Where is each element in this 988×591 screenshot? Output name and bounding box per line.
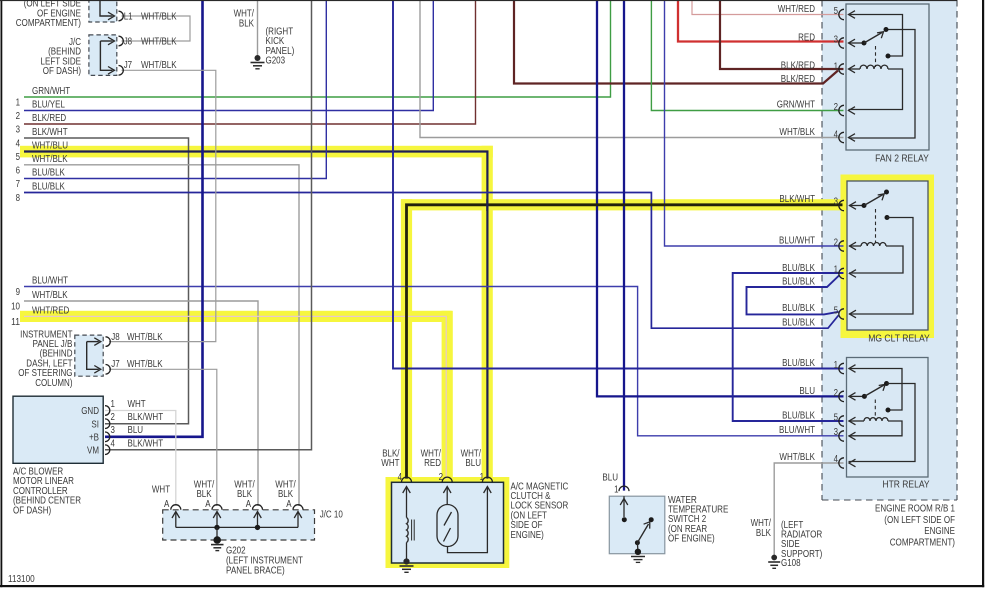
svg-text:BLU: BLU bbox=[602, 473, 618, 484]
svg-text:GND: GND bbox=[81, 406, 99, 417]
svg-text:1: 1 bbox=[614, 484, 619, 495]
svg-text:1: 1 bbox=[16, 98, 21, 109]
svg-text:A: A bbox=[246, 499, 252, 510]
svg-text:BLU/WHT: BLU/WHT bbox=[779, 425, 815, 436]
svg-text:113100: 113100 bbox=[8, 574, 35, 585]
svg-text:WHT: WHT bbox=[381, 458, 399, 469]
svg-text:BLU/BLK: BLU/BLK bbox=[782, 303, 815, 314]
svg-text:5: 5 bbox=[834, 306, 839, 317]
svg-text:BLK/RED: BLK/RED bbox=[32, 113, 66, 124]
svg-text:3: 3 bbox=[16, 125, 21, 136]
svg-text:L1: L1 bbox=[124, 12, 133, 23]
svg-text:6: 6 bbox=[16, 165, 21, 176]
svg-text:3: 3 bbox=[111, 425, 116, 436]
svg-text:OF DASH): OF DASH) bbox=[13, 505, 51, 516]
svg-text:COMPARTMENT): COMPARTMENT) bbox=[16, 18, 81, 29]
svg-text:WHT/BLK: WHT/BLK bbox=[32, 154, 68, 165]
svg-text:4: 4 bbox=[398, 472, 403, 483]
svg-text:WHT/BLK: WHT/BLK bbox=[127, 359, 163, 370]
svg-text:BLK/WHT: BLK/WHT bbox=[779, 194, 815, 205]
svg-text:2: 2 bbox=[834, 102, 839, 113]
svg-text:G203: G203 bbox=[266, 56, 286, 67]
svg-text:4: 4 bbox=[16, 139, 21, 150]
svg-text:RED: RED bbox=[798, 33, 815, 44]
svg-text:7: 7 bbox=[16, 179, 21, 190]
svg-text:5: 5 bbox=[834, 413, 839, 424]
svg-text:RED: RED bbox=[424, 458, 441, 469]
svg-text:WHT: WHT bbox=[152, 485, 170, 496]
svg-text:3: 3 bbox=[834, 35, 839, 46]
svg-text:SI: SI bbox=[91, 419, 99, 430]
svg-text:BLK/RED: BLK/RED bbox=[781, 74, 815, 85]
svg-text:BLU/BLK: BLU/BLK bbox=[782, 277, 815, 288]
svg-text:A: A bbox=[205, 499, 211, 510]
svg-text:J7: J7 bbox=[111, 359, 120, 370]
svg-text:ENGINE): ENGINE) bbox=[511, 530, 544, 541]
svg-text:GRN/WHT: GRN/WHT bbox=[777, 100, 815, 111]
svg-text:8: 8 bbox=[16, 193, 21, 204]
svg-text:BLK/WHT: BLK/WHT bbox=[128, 412, 164, 423]
svg-text:ENGINE ROOM R/B 1: ENGINE ROOM R/B 1 bbox=[875, 504, 955, 515]
svg-text:GRN/WHT: GRN/WHT bbox=[32, 86, 70, 97]
svg-text:VM: VM bbox=[87, 445, 99, 456]
svg-text:WHT/BLK: WHT/BLK bbox=[779, 452, 815, 463]
svg-text:BLU/YEL: BLU/YEL bbox=[32, 100, 65, 111]
svg-text:2: 2 bbox=[111, 412, 116, 423]
svg-text:A: A bbox=[164, 499, 170, 510]
svg-text:+B: +B bbox=[89, 433, 99, 444]
svg-text:BLU/BLK: BLU/BLK bbox=[782, 318, 815, 329]
svg-text:BLU: BLU bbox=[465, 458, 481, 469]
svg-text:HTR RELAY: HTR RELAY bbox=[882, 479, 929, 491]
svg-text:9: 9 bbox=[16, 287, 21, 298]
svg-text:BLU/BLK: BLU/BLK bbox=[32, 182, 65, 193]
svg-text:WHT: WHT bbox=[128, 399, 146, 410]
svg-text:4: 4 bbox=[111, 438, 116, 449]
svg-text:1: 1 bbox=[111, 399, 116, 410]
svg-text:WHT/BLK: WHT/BLK bbox=[141, 37, 177, 48]
svg-text:BLU/WHT: BLU/WHT bbox=[32, 276, 68, 287]
svg-text:BLU: BLU bbox=[128, 425, 144, 436]
svg-text:FAN 2 RELAY: FAN 2 RELAY bbox=[875, 153, 929, 165]
svg-text:5: 5 bbox=[834, 6, 839, 17]
svg-text:2: 2 bbox=[439, 472, 444, 483]
svg-text:J/C 10: J/C 10 bbox=[320, 509, 343, 520]
svg-text:WHT/BLK: WHT/BLK bbox=[141, 12, 177, 23]
svg-text:1: 1 bbox=[480, 472, 485, 483]
svg-text:BLU/BLK: BLU/BLK bbox=[32, 168, 65, 179]
svg-text:J8: J8 bbox=[124, 37, 133, 48]
svg-text:BLU/BLK: BLU/BLK bbox=[782, 411, 815, 422]
svg-text:ENGINE: ENGINE bbox=[924, 526, 955, 537]
svg-text:MG CLT RELAY: MG CLT RELAY bbox=[868, 333, 930, 345]
svg-text:WHT/BLK: WHT/BLK bbox=[141, 60, 177, 71]
svg-text:2: 2 bbox=[16, 111, 21, 122]
svg-text:WHT/BLK: WHT/BLK bbox=[127, 332, 163, 343]
svg-text:WHT/BLK: WHT/BLK bbox=[32, 290, 68, 301]
svg-text:WHT/RED: WHT/RED bbox=[778, 4, 815, 15]
svg-text:5: 5 bbox=[16, 152, 21, 163]
svg-text:WHT/RED: WHT/RED bbox=[32, 306, 69, 317]
svg-text:4: 4 bbox=[834, 130, 839, 141]
svg-text:10: 10 bbox=[11, 302, 20, 313]
svg-text:4: 4 bbox=[834, 454, 839, 465]
svg-text:G108: G108 bbox=[781, 558, 801, 569]
svg-text:WHT/BLU: WHT/BLU bbox=[32, 141, 68, 152]
svg-text:BLK/RED: BLK/RED bbox=[781, 61, 815, 72]
svg-text:OF DASH): OF DASH) bbox=[43, 66, 81, 77]
svg-text:J7: J7 bbox=[124, 60, 133, 71]
svg-text:BLU/BLK: BLU/BLK bbox=[782, 358, 815, 369]
svg-text:1: 1 bbox=[834, 62, 839, 73]
svg-text:BLU/BLK: BLU/BLK bbox=[782, 263, 815, 274]
svg-text:3: 3 bbox=[834, 197, 839, 208]
svg-text:(ON LEFT SIDE OF: (ON LEFT SIDE OF bbox=[884, 515, 955, 526]
svg-text:BLU/WHT: BLU/WHT bbox=[779, 236, 815, 247]
svg-text:1: 1 bbox=[834, 265, 839, 276]
svg-text:1: 1 bbox=[834, 360, 839, 371]
svg-text:2: 2 bbox=[834, 238, 839, 249]
svg-text:BLU: BLU bbox=[799, 386, 815, 397]
svg-text:J8: J8 bbox=[111, 332, 120, 343]
svg-text:COLUMN): COLUMN) bbox=[35, 378, 72, 389]
svg-text:BLK/WHT: BLK/WHT bbox=[32, 127, 68, 138]
svg-text:A: A bbox=[286, 499, 292, 510]
svg-text:BLK/WHT: BLK/WHT bbox=[128, 438, 164, 449]
svg-text:11: 11 bbox=[11, 317, 20, 328]
svg-text:OF ENGINE): OF ENGINE) bbox=[668, 534, 715, 545]
svg-text:2: 2 bbox=[834, 388, 839, 399]
svg-text:3: 3 bbox=[834, 427, 839, 438]
svg-text:BLK: BLK bbox=[239, 18, 254, 29]
svg-text:PANEL BRACE): PANEL BRACE) bbox=[226, 565, 285, 576]
svg-text:WHT/BLK: WHT/BLK bbox=[779, 127, 815, 138]
svg-text:COMPARTMENT): COMPARTMENT) bbox=[890, 537, 955, 548]
svg-text:BLK: BLK bbox=[756, 528, 771, 539]
